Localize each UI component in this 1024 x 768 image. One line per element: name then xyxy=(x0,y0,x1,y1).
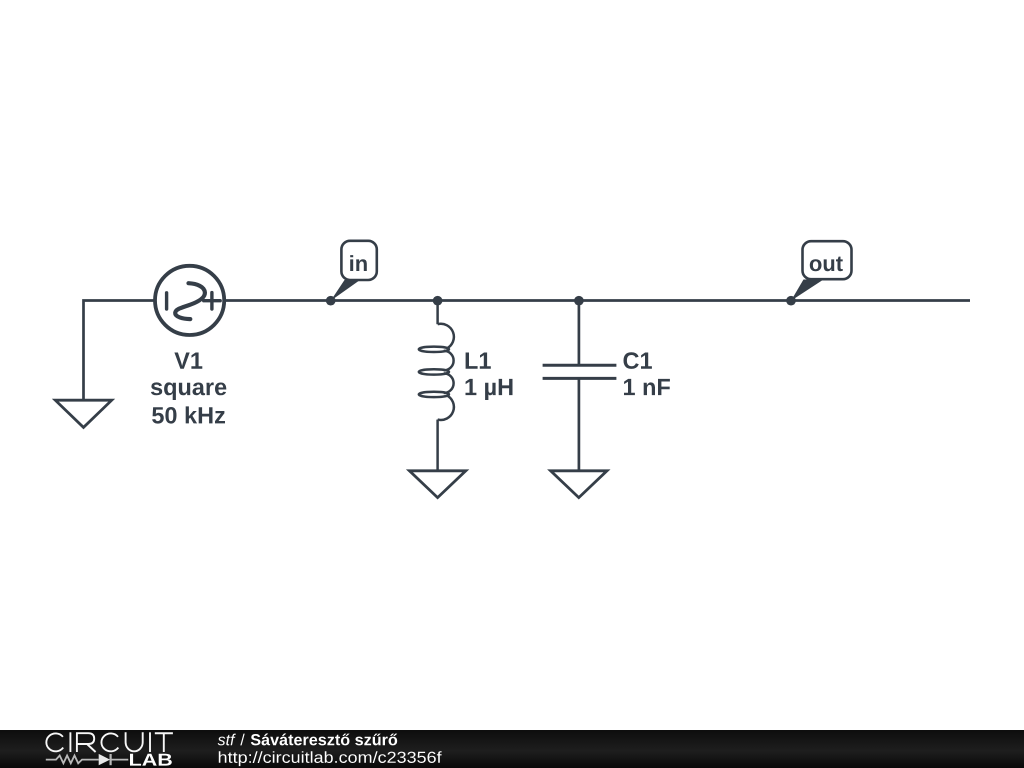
capacitor C1 xyxy=(543,301,617,471)
junction dot (in) xyxy=(326,296,336,306)
label L1 value xyxy=(466,353,513,401)
node in flag xyxy=(331,241,377,301)
junction dot (C1) xyxy=(574,296,584,306)
logo CIRCUIT text xyxy=(46,732,173,752)
wire V1 left lead to ground xyxy=(84,301,156,401)
footer title line xyxy=(218,734,236,746)
ground (C1) xyxy=(551,471,607,498)
voltage source V1 xyxy=(155,266,224,335)
junction dot (out) xyxy=(786,296,796,306)
wire main horizontal net xyxy=(225,299,971,302)
ground (L1) xyxy=(409,471,465,498)
inductor L1 xyxy=(419,301,454,471)
label C1 value xyxy=(624,352,670,395)
logo LAB text xyxy=(130,754,172,766)
ground (V1) xyxy=(55,400,111,427)
logo diode triangle xyxy=(99,754,110,765)
label V1 value xyxy=(151,353,226,424)
node out flag xyxy=(791,241,852,301)
logo resistor-diode squiggle xyxy=(46,754,129,765)
footer url line xyxy=(219,751,442,766)
junction dot (L1) xyxy=(433,296,443,306)
